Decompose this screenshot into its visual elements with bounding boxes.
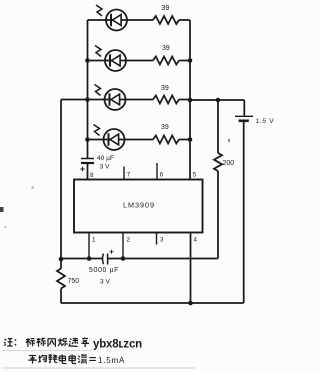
- junction: pin1 / cap rail: [87, 256, 92, 261]
- battery BT1 long plate: [235, 115, 253, 117]
- svg-text:5: 5: [193, 172, 197, 179]
- battery BT1 short plate: [239, 120, 249, 123]
- wire C1 to pin 8: [87, 163, 89, 180]
- caption ＝ sign: [89, 358, 96, 361]
- pin 1 wire: [88, 233, 90, 259]
- svg-text:40 µF: 40 µF: [97, 155, 114, 162]
- wire: timing cap rail left segment: [61, 258, 103, 260]
- svg-text:39: 39: [161, 124, 169, 131]
- capacitor C1 40uF bottom plate: [81, 162, 94, 164]
- svg-text:750: 750: [68, 278, 80, 285]
- svg-text:3 V: 3 V: [100, 164, 110, 171]
- resistor R1 39 ohm: [153, 16, 179, 24]
- LED D3: [105, 89, 126, 110]
- svg-text:4: 4: [194, 237, 198, 244]
- LED D2 light arrow: [95, 46, 101, 57]
- junction: right bus row2: [188, 58, 193, 63]
- svg-text:8: 8: [90, 172, 94, 179]
- svg-text:7: 7: [127, 172, 131, 179]
- LED D1: [106, 10, 127, 31]
- resistor R3 39 ohm: [153, 96, 179, 104]
- junction: LED bus row3: [85, 97, 90, 102]
- pin 2 wire: [122, 233, 124, 259]
- C2 plus sign: [110, 250, 114, 254]
- junction: right bus row4: [188, 137, 193, 142]
- capacitor C1 40uF top plate: [81, 158, 94, 160]
- resistor R2 39 ohm: [153, 57, 179, 65]
- op-amp/IC U1 LM3909 box: [74, 180, 203, 233]
- svg-text:2: 2: [127, 237, 131, 244]
- svg-text:3: 3: [160, 237, 164, 244]
- svg-text:200: 200: [223, 160, 235, 167]
- svg-text:LM3909: LM3909: [123, 201, 155, 210]
- LED D1 light arrow: [96, 5, 102, 16]
- wire: right cathode bus (vertical to pin 5): [189, 20, 191, 180]
- svg-text:5000 µF: 5000 µF: [89, 267, 119, 274]
- resistor R5 wire bottom: [217, 171, 219, 259]
- junction: pin2 / cap rail: [121, 256, 126, 261]
- capacitor C2 5000uF curved plate: [103, 254, 104, 265]
- junction: right bus row3 / battery rail: [188, 98, 193, 103]
- LED D3 light arrow: [95, 85, 101, 96]
- caption line 2: 平均耗电电流 (fake glyph strokes): [28, 354, 87, 363]
- LED D4 light arrow: [94, 125, 100, 136]
- wire row 1 (top LED row): [88, 19, 191, 21]
- wire: timing cap rail right segment: [108, 258, 218, 260]
- svg-text:39: 39: [162, 5, 170, 12]
- wire: battery top rail: [190, 99, 244, 101]
- junction: 750 top / cap rail: [59, 257, 64, 262]
- svg-text:ybx8ʟzcn: ybx8ʟzcn: [93, 339, 142, 351]
- pin 6 stub: [156, 163, 158, 180]
- LED D4: [104, 129, 125, 150]
- battery BT1 wire bottom: [243, 122, 245, 303]
- wire row 2: [88, 60, 191, 62]
- LED D2: [105, 50, 126, 71]
- C1 plus sign: [80, 167, 84, 171]
- svg-text:3 V: 3 V: [100, 279, 110, 286]
- junction: 200 ohm tap: [216, 98, 221, 103]
- junction: pin4 / bottom rail: [188, 301, 193, 306]
- svg-text:1: 1: [92, 237, 96, 244]
- capacitor C2 5000uF flat plate: [107, 254, 109, 265]
- junction: LED bus row2: [85, 58, 90, 63]
- scan noise marks: [0, 139, 230, 228]
- wire: bottom rail: [61, 302, 244, 304]
- caption line 1: 注：标称闪烁速率 (fake glyph strokes): [4, 338, 89, 347]
- pin 3 stub: [156, 233, 158, 245]
- wire: LED anode bus (left vertical): [87, 20, 89, 159]
- wire row 4: [88, 139, 191, 141]
- svg-text:39: 39: [162, 45, 170, 52]
- pin 4 wire: [190, 233, 192, 304]
- R6 wire bottom: [60, 289, 62, 304]
- svg-text:39: 39: [161, 85, 169, 92]
- svg-text:1.5 V: 1.5 V: [256, 118, 275, 125]
- battery BT1 wire top: [243, 100, 245, 116]
- wire row 3 (extends left to 750 branch): [61, 99, 190, 101]
- faint page show-through smears: [2, 351, 195, 369]
- resistor R5 200 ohm wire top: [217, 100, 219, 153]
- wire: left branch vertical (row3 to 750): [60, 100, 62, 269]
- svg-text:6: 6: [160, 172, 164, 179]
- svg-text:1.5mA: 1.5mA: [98, 356, 125, 365]
- resistor R6 750 ohm: [57, 269, 65, 289]
- pin 7 stub: [123, 167, 125, 180]
- resistor R5 200 ohm: [214, 153, 222, 171]
- junction: LED bus row4: [85, 137, 90, 142]
- resistor R4 39 ohm: [153, 136, 179, 144]
